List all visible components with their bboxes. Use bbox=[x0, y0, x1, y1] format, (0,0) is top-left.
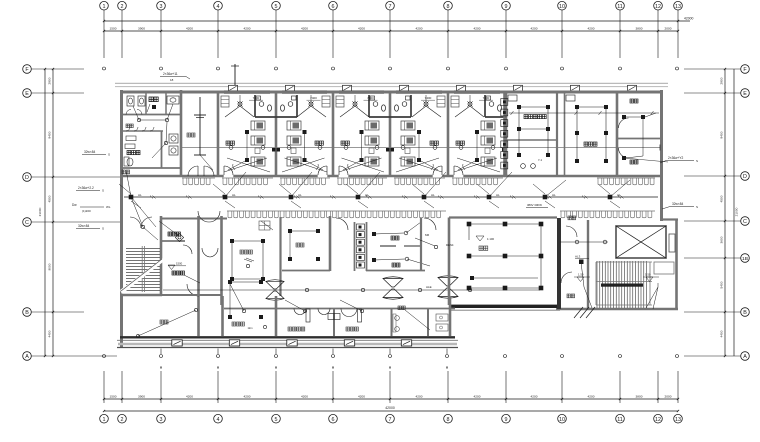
svg-text:E: E bbox=[743, 91, 747, 97]
svg-text:3900: 3900 bbox=[138, 27, 145, 31]
svg-text:380V 30KW: 380V 30KW bbox=[527, 203, 542, 207]
svg-text:2800: 2800 bbox=[720, 77, 724, 84]
svg-text:AL: AL bbox=[138, 193, 142, 197]
svg-text:2000: 2000 bbox=[665, 27, 672, 31]
svg-text:4200: 4200 bbox=[474, 395, 481, 399]
svg-text:1500: 1500 bbox=[176, 262, 183, 266]
svg-text:4200: 4200 bbox=[301, 27, 308, 31]
svg-text:2×36w+Y2: 2×36w+Y2 bbox=[668, 156, 683, 160]
svg-text:8400: 8400 bbox=[720, 131, 724, 138]
svg-text:13: 13 bbox=[675, 417, 681, 423]
svg-text:2×36w+11: 2×36w+11 bbox=[163, 72, 178, 76]
svg-text:21000: 21000 bbox=[735, 207, 739, 216]
svg-text:7400: 7400 bbox=[425, 96, 432, 100]
svg-text:4400: 4400 bbox=[48, 330, 52, 337]
svg-text:4200: 4200 bbox=[301, 395, 308, 399]
svg-text:7400: 7400 bbox=[253, 96, 260, 100]
svg-text:1B: 1B bbox=[742, 256, 748, 262]
svg-text:S: S bbox=[102, 189, 104, 193]
svg-text:5.50: 5.50 bbox=[645, 273, 651, 277]
svg-text:4200: 4200 bbox=[474, 27, 481, 31]
svg-text:(1)200: (1)200 bbox=[82, 209, 91, 213]
svg-text:S: S bbox=[696, 159, 698, 163]
svg-text:9: 9 bbox=[505, 417, 508, 423]
svg-text:Dw: Dw bbox=[72, 203, 77, 207]
svg-text:4200: 4200 bbox=[358, 395, 365, 399]
svg-text:9000: 9000 bbox=[48, 263, 52, 270]
svg-text:4200: 4200 bbox=[244, 395, 251, 399]
svg-text:4400: 4400 bbox=[720, 330, 724, 337]
svg-text:7-1: 7-1 bbox=[538, 158, 542, 162]
svg-text:18: 18 bbox=[170, 78, 174, 82]
svg-text:12: 12 bbox=[655, 417, 661, 423]
svg-text:42000: 42000 bbox=[385, 406, 395, 410]
svg-text:4200: 4200 bbox=[186, 27, 193, 31]
svg-text:4: 4 bbox=[217, 4, 220, 10]
svg-text:32w×84: 32w×84 bbox=[84, 150, 95, 154]
svg-text:11: 11 bbox=[617, 4, 623, 10]
svg-text:C: C bbox=[743, 219, 747, 225]
svg-text:REN4: REN4 bbox=[446, 243, 454, 247]
svg-text:4200: 4200 bbox=[531, 395, 538, 399]
svg-text:5400: 5400 bbox=[720, 281, 724, 288]
svg-text:3900: 3900 bbox=[138, 395, 145, 399]
svg-text:8: 8 bbox=[447, 4, 450, 10]
svg-text:E: E bbox=[25, 91, 29, 97]
svg-text:1.50: 1.50 bbox=[578, 273, 584, 277]
svg-text:7400: 7400 bbox=[483, 96, 490, 100]
svg-text:4200: 4200 bbox=[416, 27, 423, 31]
svg-text:4200: 4200 bbox=[588, 27, 595, 31]
svg-text:B: B bbox=[25, 310, 29, 316]
svg-text:4500: 4500 bbox=[720, 195, 724, 202]
svg-text:7400: 7400 bbox=[310, 96, 317, 100]
svg-text:2×36w+2.2: 2×36w+2.2 bbox=[78, 186, 94, 190]
svg-text:1: 1 bbox=[103, 4, 106, 10]
svg-text:21000: 21000 bbox=[38, 207, 42, 216]
svg-text:4200: 4200 bbox=[416, 395, 423, 399]
svg-text:42000: 42000 bbox=[684, 17, 694, 21]
svg-text:32w×84: 32w×84 bbox=[672, 202, 683, 206]
svg-text:4200: 4200 bbox=[186, 395, 193, 399]
svg-text:10: 10 bbox=[559, 417, 565, 423]
svg-text:7: 7 bbox=[389, 417, 392, 423]
svg-text:12m: 12m bbox=[247, 326, 252, 330]
svg-text:1: 1 bbox=[103, 417, 106, 423]
svg-text:12: 12 bbox=[655, 4, 661, 10]
svg-text:2: 2 bbox=[121, 4, 124, 10]
svg-text:3: 3 bbox=[160, 417, 163, 423]
svg-text:1500: 1500 bbox=[110, 395, 117, 399]
svg-text:S: S bbox=[102, 227, 104, 231]
svg-text:10: 10 bbox=[559, 4, 565, 10]
svg-text:AL: AL bbox=[298, 193, 302, 197]
svg-text:5: 5 bbox=[275, 4, 278, 10]
svg-text:4200: 4200 bbox=[531, 27, 538, 31]
svg-text:8: 8 bbox=[447, 417, 450, 423]
svg-text:32w×84: 32w×84 bbox=[78, 224, 89, 228]
svg-text:4200: 4200 bbox=[588, 395, 595, 399]
svg-text:A: A bbox=[743, 354, 747, 360]
svg-text:6: 6 bbox=[332, 4, 335, 10]
svg-text:6: 6 bbox=[332, 417, 335, 423]
svg-text:3: 3 bbox=[160, 4, 163, 10]
svg-text:A: A bbox=[25, 354, 29, 360]
svg-text:AL: AL bbox=[232, 193, 236, 197]
svg-text:4500: 4500 bbox=[48, 195, 52, 202]
svg-text:4200: 4200 bbox=[244, 27, 251, 31]
svg-text:D: D bbox=[25, 175, 29, 181]
svg-text:2: 2 bbox=[121, 417, 124, 423]
svg-text:4: 4 bbox=[217, 417, 220, 423]
svg-text:D: D bbox=[743, 174, 747, 180]
svg-text:1500: 1500 bbox=[110, 27, 117, 31]
svg-text:3600: 3600 bbox=[720, 236, 724, 243]
svg-text:AL: AL bbox=[431, 193, 435, 197]
svg-text:11: 11 bbox=[617, 417, 623, 423]
svg-text:7400: 7400 bbox=[367, 96, 374, 100]
svg-text:2000: 2000 bbox=[665, 395, 672, 399]
svg-text:9: 9 bbox=[505, 4, 508, 10]
svg-text:3800: 3800 bbox=[636, 395, 643, 399]
svg-text:AL: AL bbox=[496, 193, 500, 197]
svg-text:AL: AL bbox=[552, 193, 556, 197]
svg-text:AL3: AL3 bbox=[575, 255, 581, 259]
svg-text:M6: M6 bbox=[425, 233, 429, 237]
svg-text:C: C bbox=[25, 220, 29, 226]
svg-text:5: 5 bbox=[275, 417, 278, 423]
svg-text:7: 7 bbox=[389, 4, 392, 10]
svg-text:8400: 8400 bbox=[48, 131, 52, 138]
svg-text:WL: WL bbox=[106, 205, 111, 209]
svg-text:1:100: 1:100 bbox=[487, 237, 494, 241]
svg-text:ALE: ALE bbox=[426, 285, 432, 289]
svg-text:13: 13 bbox=[675, 4, 681, 10]
svg-text:2800: 2800 bbox=[48, 77, 52, 84]
svg-text:S: S bbox=[696, 205, 698, 209]
svg-text:3800: 3800 bbox=[636, 27, 643, 31]
svg-text:S: S bbox=[108, 153, 110, 157]
svg-text:B: B bbox=[743, 310, 747, 316]
svg-text:4200: 4200 bbox=[358, 27, 365, 31]
